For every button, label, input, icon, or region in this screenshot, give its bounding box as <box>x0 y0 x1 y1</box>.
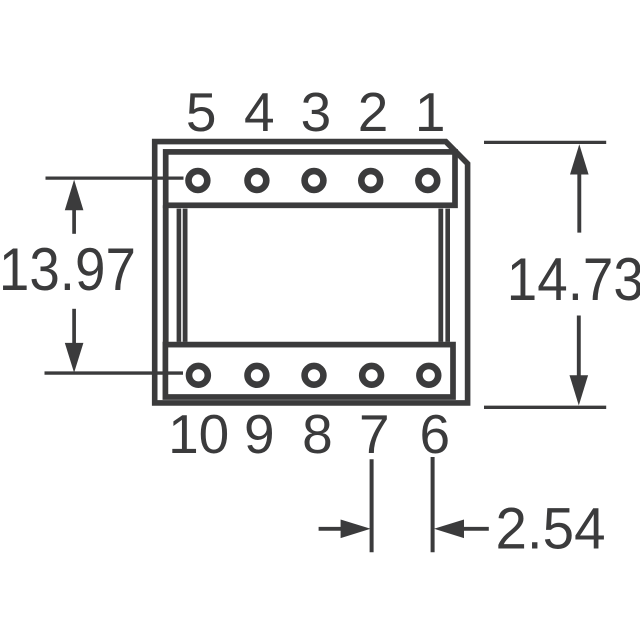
pin 2 hole <box>361 171 380 190</box>
dim 14.73 top arrow stem <box>577 173 581 233</box>
dim 13.97 bottom arrowhead <box>65 343 84 373</box>
dim 14.73 bottom arrowhead <box>570 375 589 405</box>
svg-text:14.73: 14.73 <box>507 245 640 313</box>
pin 1 hole <box>418 171 437 190</box>
pin 5 hole <box>189 171 208 190</box>
dim 14.73 bottom arrow stem <box>577 316 581 377</box>
svg-text:7: 7 <box>359 403 390 465</box>
bobbin outer outline (chamfered top-right corner) <box>155 142 468 403</box>
svg-text:8: 8 <box>302 403 333 465</box>
svg-text:3: 3 <box>301 81 332 143</box>
dim 2.54 left arrowhead <box>341 520 371 539</box>
dim 2.54 right arrow tail <box>460 527 489 531</box>
dim 13.97 top arrow stem <box>72 209 76 234</box>
pin 6 hole <box>419 366 438 385</box>
pin 8 hole <box>305 366 324 385</box>
svg-text:13.97: 13.97 <box>0 235 136 303</box>
dim 13.97 bottom extension line <box>45 371 184 374</box>
svg-text:6: 6 <box>420 403 451 465</box>
pin 3 hole <box>305 171 324 190</box>
right wall line outer <box>438 209 443 342</box>
dim 14.73 top extension line <box>484 141 606 144</box>
svg-text:2: 2 <box>358 81 389 143</box>
svg-text:4: 4 <box>244 81 275 143</box>
svg-text:10: 10 <box>168 403 229 465</box>
left wall line inner <box>183 209 188 342</box>
dim 13.97 top arrowhead <box>65 180 84 211</box>
svg-text:1: 1 <box>415 81 446 143</box>
dim 2.54 left arrow tail <box>319 527 345 531</box>
svg-text:9: 9 <box>244 403 275 465</box>
pin 9 hole <box>248 366 267 385</box>
dim 2.54 right arrowhead <box>434 520 464 539</box>
dim 2.54 pin 6 extension line <box>431 457 435 552</box>
pin 4 hole <box>248 171 267 190</box>
pin 10 hole <box>189 366 208 385</box>
bottom pin bar <box>165 345 453 397</box>
dim 14.73 top arrowhead <box>570 144 589 174</box>
dim 2.54 pin 7 extension line <box>370 459 374 552</box>
svg-text:5: 5 <box>186 81 217 143</box>
pin 7 hole <box>362 366 381 385</box>
dim 13.97 bottom arrow stem <box>72 309 76 345</box>
right wall line inner <box>445 209 450 342</box>
left flange line <box>163 205 169 344</box>
dim 13.97 top extension line <box>46 177 184 180</box>
dim 14.73 bottom extension line <box>484 406 606 409</box>
svg-text:2.54: 2.54 <box>496 496 606 561</box>
left wall line outer <box>177 209 182 342</box>
top pin bar <box>166 152 455 205</box>
